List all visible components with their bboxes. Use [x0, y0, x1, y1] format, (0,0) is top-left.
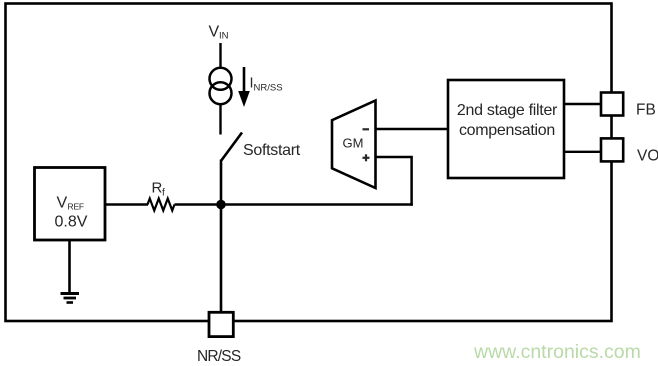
wire current source to switch [219, 104, 221, 135]
svg-text:NR/SS: NR/SS [254, 83, 283, 94]
wire node A to GM plus path [221, 203, 413, 205]
pin FB (terminal square) [601, 93, 623, 116]
svg-text:0.8V: 0.8V [55, 214, 88, 231]
label INR/SS [250, 76, 283, 94]
wire VREF box to resistor Rf [105, 203, 148, 205]
label VREF [57, 195, 84, 212]
svg-text:2nd stage filter: 2nd stage filter [457, 102, 558, 119]
svg-text:GM: GM [343, 136, 364, 151]
resistor Rf [148, 199, 175, 211]
wire filter block to FB pin [564, 103, 601, 105]
wire GM minus input to filter block [376, 128, 449, 131]
pin VO (terminal square) [601, 138, 623, 161]
svg-text:V: V [209, 24, 220, 41]
svg-text:VO: VO [637, 148, 658, 165]
svg-text:Softstart: Softstart [243, 142, 301, 159]
ground wire from VREF [68, 240, 71, 293]
svg-text:V: V [57, 195, 68, 212]
GM non-inverting input plus sign [363, 154, 370, 161]
label 2nd stage filter compensation [457, 102, 558, 139]
svg-text:REF: REF [68, 202, 84, 212]
svg-text:IN: IN [219, 31, 229, 42]
svg-text:f: f [162, 188, 165, 199]
current direction arrow [238, 67, 250, 107]
wire resistor to node A [175, 203, 222, 205]
voltage reference U2 VREF 0.8V [35, 168, 106, 241]
current source I1 (softstart charge current) [210, 68, 232, 104]
GM inverting input minus sign [363, 128, 370, 130]
label Rf [152, 180, 166, 199]
ground [61, 294, 80, 303]
svg-text:www.cntronics.com: www.cntronics.com [473, 341, 641, 363]
wire switch to node A [220, 160, 223, 206]
node A junction dot [216, 200, 226, 210]
svg-text:NR/SS: NR/SS [197, 348, 241, 365]
wire VIN to current source [219, 43, 221, 69]
op-amp U1 GM transconductance amplifier [332, 101, 376, 189]
block U3 2nd stage filter compensation [448, 80, 564, 178]
svg-text:R: R [152, 180, 163, 197]
switch S1 Softstart (blade) [221, 133, 242, 161]
svg-text:FB: FB [636, 102, 656, 119]
wire filter block to VO pin [564, 151, 601, 153]
node VIN label [209, 24, 229, 42]
wire node A to NR/SS pin [220, 205, 223, 314]
svg-text:compensation: compensation [459, 122, 555, 139]
wire up segment to GM plus input [375, 157, 412, 206]
pin NR/SS (terminal square) [209, 312, 233, 336]
